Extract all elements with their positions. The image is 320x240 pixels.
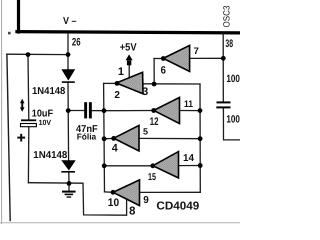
level arrow [20, 99, 25, 112]
svg-text:26: 26 [72, 37, 81, 49]
wire U1 input line node3 [143, 83, 200, 85]
wire 10uF top branch [27, 55, 30, 120]
ground [62, 191, 76, 198]
junction node 3 [152, 82, 157, 87]
wire D2 anode [67, 111, 69, 161]
wire U5 out [104, 165, 153, 167]
wire +5V stem [128, 65, 130, 77]
junction input rail U4 [198, 136, 203, 141]
wire D2 cathode to gnd [68, 172, 70, 183]
wire D1 anode [67, 55, 69, 70]
wire U4 in [139, 137, 200, 139]
wire D1 cathode to node [67, 83, 69, 111]
svg-text:1: 1 [118, 66, 124, 78]
power arrow +5V [126, 54, 133, 65]
wire U1 out link [104, 82, 117, 84]
op U3 inverter [154, 97, 180, 123]
svg-text:6: 6 [161, 64, 166, 76]
svg-text:38: 38 [225, 38, 233, 50]
svg-text:1N4148: 1N4148 [33, 150, 67, 161]
wire U2 out link [154, 58, 163, 60]
svg-text:4: 4 [112, 143, 119, 155]
wire U3 in [180, 110, 201, 112]
op U1 inverter [116, 72, 143, 94]
junction pin26 node [66, 52, 71, 57]
diode D2 1N4148 [61, 160, 75, 172]
speck [8, 32, 11, 35]
op U2 inverter [163, 45, 189, 71]
wire 10uF bottom branch [27, 127, 29, 183]
junction input rail U3 [198, 108, 203, 113]
wire top V- [7, 53, 68, 55]
junction U4 output tip [111, 136, 116, 141]
svg-text:+5V: +5V [120, 41, 137, 53]
svg-text:100n: 100n [226, 73, 240, 85]
junction U6 output tip [111, 190, 116, 195]
svg-text:5: 5 [143, 127, 148, 137]
svg-text:7: 7 [194, 46, 199, 57]
wire 47nF left [68, 110, 84, 112]
wire U2 in to pin38 rail [190, 57, 224, 59]
svg-text:1N4148: 1N4148 [32, 86, 66, 97]
wire U2 out drop [153, 59, 155, 85]
junction U5 output tip [150, 163, 155, 168]
wire U6 in [140, 191, 201, 193]
junction U3 output tip [151, 108, 156, 113]
svg-text:CD4049: CD4049 [156, 200, 199, 212]
wire U5 in [179, 165, 201, 167]
wire left rail [7, 54, 10, 220]
svg-text:12: 12 [150, 116, 159, 128]
scan edge left [1, 0, 3, 224]
junction U1 output tip [115, 81, 120, 86]
svg-text:9: 9 [143, 195, 149, 206]
capacitor C2 47nF [84, 102, 92, 118]
svg-text:OSC3: OSC3 [222, 6, 232, 28]
wire U3 out [104, 110, 154, 112]
op U6 inverter [113, 180, 140, 206]
wire U6 out link [105, 191, 114, 193]
svg-text:14: 14 [183, 153, 194, 164]
polarity plus [17, 134, 25, 142]
svg-text:2: 2 [114, 90, 120, 101]
svg-text:V –: V – [63, 16, 77, 27]
svg-text:11: 11 [184, 99, 194, 110]
op U4 inverter [114, 125, 139, 151]
wire pin26 [67, 34, 69, 55]
wire pin38 rail upper [222, 34, 224, 102]
wire input rail right [199, 84, 201, 192]
wire 47nF right [92, 110, 104, 112]
svg-text:3: 3 [142, 86, 148, 98]
wire bottom ground run [28, 183, 126, 216]
svg-text:15: 15 [148, 172, 156, 183]
junction output rail U3 [102, 108, 107, 113]
op U5 inverter [153, 152, 179, 178]
junction C1 top [26, 52, 31, 57]
IC box bottom edge [17, 32, 238, 33]
svg-text:10: 10 [108, 197, 119, 209]
wire gnd stem [68, 183, 70, 191]
svg-text:10V: 10V [39, 118, 52, 127]
junction pin38 node [221, 56, 226, 61]
capacitor C3 100n [216, 101, 230, 108]
svg-text:100n: 100n [226, 113, 240, 125]
junction U2 output tip [161, 56, 166, 61]
svg-text:8: 8 [129, 206, 136, 218]
svg-text:Fólia: Fólia [77, 132, 97, 142]
wire U4 out [104, 137, 114, 139]
junction input rail U5 [198, 163, 203, 168]
junction output rail U4 [102, 136, 107, 141]
diode D1 1N4148 [61, 69, 75, 83]
junction diode clamp node [66, 108, 71, 113]
scan edge bottom [0, 222, 240, 224]
junction ground node [67, 181, 72, 186]
wire pin38 rail lower exit [223, 108, 240, 140]
wire feedback rail [103, 83, 106, 191]
IC box left edge [17, 0, 20, 32]
junction output rail U5 [102, 163, 107, 168]
capacitor C1 10uF electrolytic [21, 119, 37, 126]
